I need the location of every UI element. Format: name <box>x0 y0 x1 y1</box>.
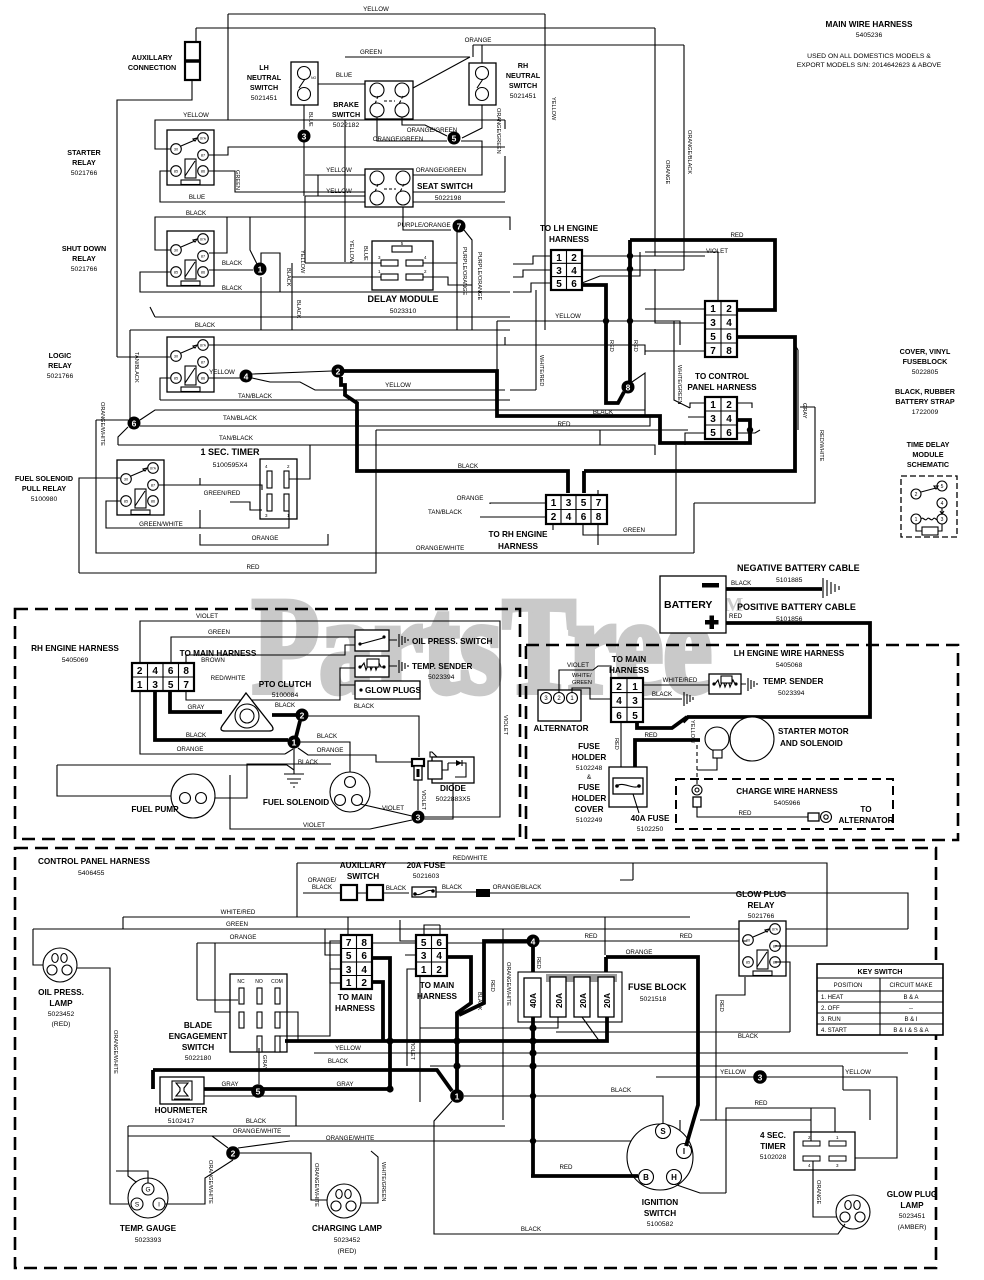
svg-text:5021451: 5021451 <box>251 95 278 102</box>
delay module box <box>372 241 433 290</box>
svg-text:1: 1 <box>551 498 557 509</box>
svg-text:BLACK: BLACK <box>593 409 614 416</box>
svg-text:AUXILLARY: AUXILLARY <box>132 53 173 62</box>
svg-text:BLACK: BLACK <box>442 884 463 891</box>
svg-text:RED: RED <box>559 1164 573 1171</box>
svg-text:YELLOW: YELLOW <box>845 1069 871 1076</box>
svg-text:FUEL PUMP: FUEL PUMP <box>131 805 179 814</box>
svg-text:YELLOW: YELLOW <box>348 240 354 264</box>
svg-text:(RED): (RED) <box>52 1021 71 1028</box>
aux switch squares <box>341 885 357 900</box>
svg-text:RED: RED <box>246 564 260 571</box>
svg-text:3: 3 <box>710 414 716 425</box>
svg-text:YELLOW: YELLOW <box>385 382 411 389</box>
starter relay wires <box>155 120 505 149</box>
time delay module schematic <box>901 476 957 537</box>
svg-text:5023394: 5023394 <box>778 690 805 697</box>
wires into control panel conn <box>685 403 705 445</box>
svg-text:RH ENGINE HARNESS: RH ENGINE HARNESS <box>31 644 119 653</box>
orange thick <box>606 957 698 1060</box>
svg-text:3: 3 <box>346 965 352 976</box>
svg-text:YELLOW: YELLOW <box>209 369 235 376</box>
svg-text:RED/WHITE: RED/WHITE <box>211 675 246 682</box>
black orange/white wires <box>128 1126 505 1136</box>
LH neutral switch symbol <box>291 62 318 105</box>
junction dots gray bus <box>386 1037 393 1044</box>
svg-text:MODULE: MODULE <box>912 450 943 459</box>
svg-text:USED ON ALL DOMESTICS MODELS &: USED ON ALL DOMESTICS MODELS & <box>807 53 931 60</box>
svg-text:ORANGE: ORANGE <box>664 160 670 185</box>
gray wire <box>795 345 798 430</box>
svg-text:RED: RED <box>584 933 598 940</box>
svg-text:RED: RED <box>644 732 658 739</box>
svg-text:SWITCH: SWITCH <box>347 872 379 881</box>
black thick bus <box>153 1070 452 1091</box>
svg-text:COVER, VINYL: COVER, VINYL <box>900 347 951 356</box>
timer wires <box>700 1108 811 1141</box>
svg-text:6: 6 <box>436 938 442 949</box>
svg-text:BLACK: BLACK <box>298 759 319 766</box>
svg-text:MAIN WIRE HARNESS: MAIN WIRE HARNESS <box>826 20 913 29</box>
svg-text:1: 1 <box>346 978 352 989</box>
TO MAIN HARNESS conn A <box>341 935 372 989</box>
svg-text:NC: NC <box>237 979 245 985</box>
fuel pull relay U4 <box>117 460 164 515</box>
svg-text:HARNESS: HARNESS <box>498 542 539 551</box>
svg-text:2: 2 <box>231 1149 236 1159</box>
svg-text:YELLOW: YELLOW <box>555 313 581 320</box>
svg-text:TO LH ENGINE: TO LH ENGINE <box>540 224 599 233</box>
svg-text:RED: RED <box>613 738 619 750</box>
inline connector symbol <box>412 759 424 780</box>
svg-text:ORANGE: ORANGE <box>177 746 204 753</box>
svg-text:RED: RED <box>738 810 752 817</box>
svg-text:NEUTRAL: NEUTRAL <box>506 71 541 80</box>
svg-text:5023394: 5023394 <box>428 674 455 681</box>
thick black wire pin3 <box>155 691 288 740</box>
svg-text:ORANGE/WHITE: ORANGE/WHITE <box>313 1163 319 1207</box>
svg-text:G: G <box>145 1187 150 1194</box>
wire yellow node4 <box>209 377 240 379</box>
thick wires conn A <box>372 958 390 1089</box>
svg-text:5: 5 <box>452 134 457 144</box>
svg-text:3: 3 <box>566 498 572 509</box>
svg-text:2: 2 <box>137 666 143 677</box>
wire green <box>345 56 470 58</box>
svg-text:GREEN: GREEN <box>208 629 230 636</box>
svg-text:2: 2 <box>726 400 732 411</box>
orange bus <box>197 943 527 1000</box>
fuel relay wires <box>79 478 120 573</box>
svg-text:YELLOW: YELLOW <box>550 97 556 121</box>
svg-text:HOLDER: HOLDER <box>572 753 607 762</box>
svg-text:RED: RED <box>729 613 743 620</box>
svg-text:SEAT SWITCH: SEAT SWITCH <box>417 182 473 191</box>
svg-text:2: 2 <box>571 253 577 264</box>
TO LH ENGINE connector <box>551 250 582 290</box>
svg-text:5405069: 5405069 <box>62 657 89 664</box>
svg-text:GREEN/WHITE: GREEN/WHITE <box>139 521 183 528</box>
svg-text:YELLOW: YELLOW <box>363 6 389 13</box>
yellow wire node3 <box>656 1077 897 1158</box>
brake switch symbol <box>365 81 413 119</box>
svg-text:WHITE/GREEN: WHITE/GREEN <box>380 1162 386 1201</box>
svg-text:RED/WHITE: RED/WHITE <box>818 430 824 462</box>
svg-text:B & I: B & I <box>904 1017 917 1023</box>
svg-text:PURPLE/ORANGE: PURPLE/ORANGE <box>397 222 450 229</box>
svg-text:BLACK: BLACK <box>285 268 291 287</box>
svg-text:BLUE: BLUE <box>336 72 352 79</box>
svg-text:5406455: 5406455 <box>78 870 105 877</box>
node 1 ball <box>254 263 267 276</box>
svg-text:5021766: 5021766 <box>47 373 74 380</box>
svg-text:PURPLE/ORANGE: PURPLE/ORANGE <box>461 247 467 295</box>
svg-text:GREEN: GREEN <box>623 527 645 534</box>
svg-text:2: 2 <box>361 978 367 989</box>
logic relay wires top <box>117 307 645 420</box>
svg-text:1: 1 <box>632 682 638 693</box>
junction dots <box>603 318 609 324</box>
svg-text:1: 1 <box>455 1092 460 1102</box>
svg-text:8: 8 <box>183 666 189 677</box>
yellow bus <box>314 1052 908 1054</box>
svg-text:6: 6 <box>132 419 137 429</box>
svg-text:1: 1 <box>710 304 716 315</box>
svg-text:87A: 87A <box>200 137 207 141</box>
green wire below <box>583 445 694 553</box>
node 2 ball <box>332 365 345 378</box>
svg-text:RED: RED <box>754 1100 768 1107</box>
svg-text:5102028: 5102028 <box>760 1154 787 1161</box>
wire rh neutral top <box>481 45 483 63</box>
thick gray wire pin5 <box>170 691 222 712</box>
seat switch symbol <box>365 169 413 207</box>
svg-text:BLACK: BLACK <box>312 884 333 891</box>
gray thick bus 2 <box>204 1087 390 1091</box>
svg-text:3: 3 <box>710 318 716 329</box>
wire orange/green rh down <box>462 105 482 138</box>
svg-text:CHARGE WIRE HARNESS: CHARGE WIRE HARNESS <box>736 787 838 796</box>
white/green wire alt <box>572 688 611 699</box>
wire node5 right <box>461 141 482 160</box>
svg-text:TO MAIN: TO MAIN <box>338 993 373 1002</box>
node 4 ball <box>240 370 253 383</box>
svg-text:8: 8 <box>361 938 367 949</box>
svg-text:YELLOW: YELLOW <box>299 250 305 274</box>
gray thick bus <box>285 1017 607 1041</box>
conn wires right thin <box>582 256 684 270</box>
svg-text:BLACK: BLACK <box>476 992 482 1011</box>
svg-text:BLACK: BLACK <box>317 733 338 740</box>
svg-text:6: 6 <box>726 332 732 343</box>
svg-text:5: 5 <box>556 279 562 290</box>
svg-text:VIOLET: VIOLET <box>409 1040 415 1060</box>
svg-text:BLACK: BLACK <box>295 300 301 319</box>
svg-text:PURPLE/ORANGE: PURPLE/ORANGE <box>476 252 482 300</box>
svg-text:3: 3 <box>302 132 307 142</box>
thick to node4 <box>459 941 527 1015</box>
svg-text:GRAY: GRAY <box>801 403 807 419</box>
svg-text:5021451: 5021451 <box>510 93 537 100</box>
svg-text:BATTERY: BATTERY <box>664 599 712 611</box>
svg-text:3: 3 <box>421 951 427 962</box>
yellow dashed <box>696 745 698 785</box>
svg-text:BLACK: BLACK <box>521 1226 542 1233</box>
svg-text:YELLOW: YELLOW <box>326 188 352 195</box>
svg-text:4: 4 <box>361 965 367 976</box>
svg-text:ORANGE/: ORANGE/ <box>308 877 337 884</box>
shutdown relay U2 <box>167 231 214 286</box>
svg-text:ORANGE/GREEN: ORANGE/GREEN <box>416 167 467 174</box>
svg-text:BLUE: BLUE <box>307 112 313 127</box>
svg-text:GRAY: GRAY <box>187 704 204 711</box>
svg-text:RELAY: RELAY <box>72 158 96 167</box>
svg-text:BLACK: BLACK <box>611 1087 632 1094</box>
svg-text:TO MAIN: TO MAIN <box>420 981 455 990</box>
white/red wire lh <box>643 684 712 686</box>
wire yellow top <box>228 14 545 120</box>
violet line <box>582 252 705 283</box>
to rh engine connector <box>546 495 607 524</box>
svg-text:GRAY: GRAY <box>221 1081 238 1088</box>
svg-text:5023452: 5023452 <box>48 1011 75 1018</box>
svg-text:5405966: 5405966 <box>774 800 801 807</box>
svg-text:GLOW PLUGS: GLOW PLUGS <box>365 686 421 695</box>
svg-text:SCHEMATIC: SCHEMATIC <box>907 460 949 469</box>
svg-text:ORANGE: ORANGE <box>230 934 257 941</box>
svg-text:GRAY: GRAY <box>261 1055 267 1071</box>
svg-text:RELAY: RELAY <box>748 901 776 910</box>
svg-text:FUEL SOLENOID: FUEL SOLENOID <box>15 474 73 483</box>
thick red top <box>630 240 775 310</box>
svg-text:NO: NO <box>255 979 263 985</box>
node 5 ball <box>251 1084 265 1098</box>
svg-text:RED: RED <box>489 980 495 992</box>
thick black y471 left part <box>357 420 584 493</box>
TO CONTROL PANEL connector <box>705 397 737 439</box>
node 2 ball <box>226 1146 240 1160</box>
control panel harness dashed box <box>15 848 936 1268</box>
svg-text:HOLDER: HOLDER <box>572 794 607 803</box>
fuse holder box <box>609 767 647 807</box>
svg-text:HARNESS: HARNESS <box>335 1004 376 1013</box>
svg-text:ORANGE/BLACK: ORANGE/BLACK <box>493 884 543 891</box>
svg-text:YELLOW: YELLOW <box>183 112 209 119</box>
svg-text:5102248: 5102248 <box>576 765 603 772</box>
svg-text:LAMP: LAMP <box>49 999 73 1008</box>
svg-text:B & I & S & A: B & I & S & A <box>893 1028 928 1034</box>
svg-text:STARTER: STARTER <box>67 148 101 157</box>
svg-text:BLUE: BLUE <box>362 246 368 261</box>
svg-text:1: 1 <box>556 253 562 264</box>
svg-text:20A: 20A <box>555 993 564 1008</box>
svg-text:5100595X4: 5100595X4 <box>213 462 248 469</box>
svg-text:BLACK: BLACK <box>246 1118 267 1125</box>
svg-text:2: 2 <box>616 682 622 693</box>
svg-text:BLACK: BLACK <box>354 703 375 710</box>
key switch table <box>817 964 943 1035</box>
svg-text:RELAY: RELAY <box>48 361 72 370</box>
svg-text:SHUT DOWN: SHUT DOWN <box>62 244 106 253</box>
svg-text:LAMP: LAMP <box>900 1201 924 1210</box>
svg-text:7: 7 <box>346 938 352 949</box>
logic relay bottom wires <box>160 378 510 400</box>
node 3 ball <box>753 1070 767 1084</box>
svg-text:BLACK: BLACK <box>186 732 207 739</box>
svg-text:3: 3 <box>416 813 421 823</box>
svg-text:HARNESS: HARNESS <box>549 235 590 244</box>
svg-text:VIOLET: VIOLET <box>420 790 426 810</box>
svg-text:OIL PRESS. SWITCH: OIL PRESS. SWITCH <box>412 637 492 646</box>
svg-text:5405236: 5405236 <box>856 32 883 39</box>
svg-text:YELLOW: YELLOW <box>335 1045 361 1052</box>
svg-text:20A: 20A <box>603 993 612 1008</box>
svg-text:5023393: 5023393 <box>135 1237 162 1244</box>
svg-text:ALTERNATOR: ALTERNATOR <box>838 816 893 825</box>
vertical white/red <box>510 290 536 390</box>
svg-text:BLADE: BLADE <box>184 1021 213 1030</box>
charging lamp <box>327 1184 361 1218</box>
shutdown relay wires <box>155 217 510 250</box>
svg-text:ORANGE: ORANGE <box>317 747 344 754</box>
svg-text:ENGAGEMENT: ENGAGEMENT <box>169 1032 228 1041</box>
svg-text:4: 4 <box>152 666 158 677</box>
svg-text:I: I <box>158 1202 160 1209</box>
svg-text:YELLOW: YELLOW <box>720 1069 746 1076</box>
svg-text:BLACK: BLACK <box>738 1033 759 1040</box>
svg-text:4: 4 <box>571 266 577 277</box>
svg-text:2: 2 <box>551 512 557 523</box>
svg-text:IGNITION: IGNITION <box>642 1198 678 1207</box>
svg-text:5100980: 5100980 <box>31 496 58 503</box>
green bus <box>33 917 908 929</box>
thick from conn lh <box>637 717 687 728</box>
svg-text:RELAY: RELAY <box>72 254 96 263</box>
svg-text:BLACK: BLACK <box>275 702 296 709</box>
thick conn B <box>447 957 471 1091</box>
svg-text:ORANGE/WHITE: ORANGE/WHITE <box>416 545 464 552</box>
svg-text:BLACK: BLACK <box>386 885 407 892</box>
svg-text:LOGIC: LOGIC <box>49 351 72 360</box>
svg-text:S: S <box>135 1202 140 1209</box>
svg-text:5023451: 5023451 <box>899 1213 926 1220</box>
svg-text:SWITCH: SWITCH <box>182 1043 214 1052</box>
temp gauge <box>128 1178 168 1218</box>
svg-text:AND SOLENOID: AND SOLENOID <box>780 739 843 748</box>
svg-text:6: 6 <box>571 279 577 290</box>
thick wires ignition <box>686 1060 698 1146</box>
node 1 ball <box>450 1089 464 1103</box>
svg-text:5: 5 <box>710 428 716 439</box>
svg-text:2. OFF: 2. OFF <box>821 1006 840 1012</box>
svg-text:BLACK: BLACK <box>222 285 243 292</box>
svg-text:6: 6 <box>168 666 174 677</box>
svg-text:6: 6 <box>616 711 622 722</box>
svg-text:(AMBER): (AMBER) <box>898 1224 927 1231</box>
svg-text:1: 1 <box>258 265 263 275</box>
RH engine harness dashed box <box>15 609 520 839</box>
svg-text:ORANGE: ORANGE <box>252 535 279 542</box>
svg-text:BLACK: BLACK <box>458 463 479 470</box>
svg-text:VIOLET: VIOLET <box>382 805 404 812</box>
svg-text:ORANGE/WHITE: ORANGE/WHITE <box>233 1128 281 1135</box>
1 sec timer box <box>260 459 297 519</box>
svg-text:HARNESS: HARNESS <box>609 666 650 675</box>
svg-text:5023310: 5023310 <box>390 308 417 315</box>
auxillary connector symbol <box>185 42 200 80</box>
svg-text:RED: RED <box>608 340 614 352</box>
red/white wire <box>186 668 355 700</box>
black wire from node2 right <box>308 716 419 757</box>
svg-text:HARNESS: HARNESS <box>417 992 458 1001</box>
svg-text:2: 2 <box>726 304 732 315</box>
svg-text:ORANGE: ORANGE <box>815 1180 821 1205</box>
svg-text:RED: RED <box>718 1000 724 1012</box>
svg-text:5021766: 5021766 <box>71 266 98 273</box>
svg-text:5102249: 5102249 <box>576 817 603 824</box>
wire green to brake <box>413 57 470 88</box>
svg-text:86: 86 <box>201 170 205 174</box>
svg-text:5102417: 5102417 <box>168 1118 195 1125</box>
svg-text:5: 5 <box>256 1087 261 1097</box>
svg-text:STARTER MOTOR: STARTER MOTOR <box>778 727 849 736</box>
node 7 ball <box>453 220 466 233</box>
svg-text:SWITCH: SWITCH <box>644 1209 676 1218</box>
svg-text:6: 6 <box>581 512 587 523</box>
node 8 ball <box>622 381 635 394</box>
node 4 ball <box>527 935 540 948</box>
svg-text:5405068: 5405068 <box>776 662 803 669</box>
svg-text:PANEL HARNESS: PANEL HARNESS <box>687 383 757 392</box>
oil lamp wires <box>33 929 131 1204</box>
svg-text:SWITCH: SWITCH <box>509 81 537 90</box>
delay module wires <box>305 196 381 263</box>
svg-text:VIOLET: VIOLET <box>196 613 218 620</box>
svg-text:H: H <box>671 1173 677 1182</box>
node vertical x655 orange <box>654 28 656 256</box>
wire orange top second <box>196 28 655 42</box>
violet wire alt <box>559 666 611 692</box>
thick red fuse to starter <box>635 740 700 767</box>
svg-text:TEMP. SENDER: TEMP. SENDER <box>412 662 472 671</box>
fuel pump <box>171 774 215 818</box>
TO MAIN connector lh <box>611 678 643 722</box>
svg-text:COM: COM <box>271 979 283 985</box>
LH engine harness dashed box <box>526 645 958 840</box>
glow relay wires <box>742 935 827 946</box>
svg-text:CHARGING LAMP: CHARGING LAMP <box>312 1224 383 1233</box>
svg-text:TO MAIN: TO MAIN <box>612 655 647 664</box>
svg-text:NEGATIVE BATTERY CABLE: NEGATIVE BATTERY CABLE <box>737 563 860 573</box>
svg-text:8: 8 <box>626 383 631 393</box>
vertical lines down from conn <box>497 321 545 412</box>
svg-text:TO: TO <box>860 805 872 814</box>
svg-text:2: 2 <box>436 965 442 976</box>
red wire to fuse holder <box>620 722 622 767</box>
svg-text:1722009: 1722009 <box>912 409 939 416</box>
svg-text:3: 3 <box>556 266 562 277</box>
ring terminal <box>692 785 702 795</box>
svg-text:GRAY: GRAY <box>336 1081 353 1088</box>
node 6 ball <box>128 417 141 430</box>
svg-text:YELLOW: YELLOW <box>689 720 695 744</box>
svg-text:(RED): (RED) <box>338 1248 357 1255</box>
svg-text:KEY SWITCH: KEY SWITCH <box>858 967 903 976</box>
svg-text:POSITIVE BATTERY CABLE: POSITIVE BATTERY CABLE <box>737 602 856 612</box>
glow plugs box <box>355 681 420 699</box>
violet wire top <box>140 621 500 817</box>
blade engagement switch <box>230 974 287 1052</box>
